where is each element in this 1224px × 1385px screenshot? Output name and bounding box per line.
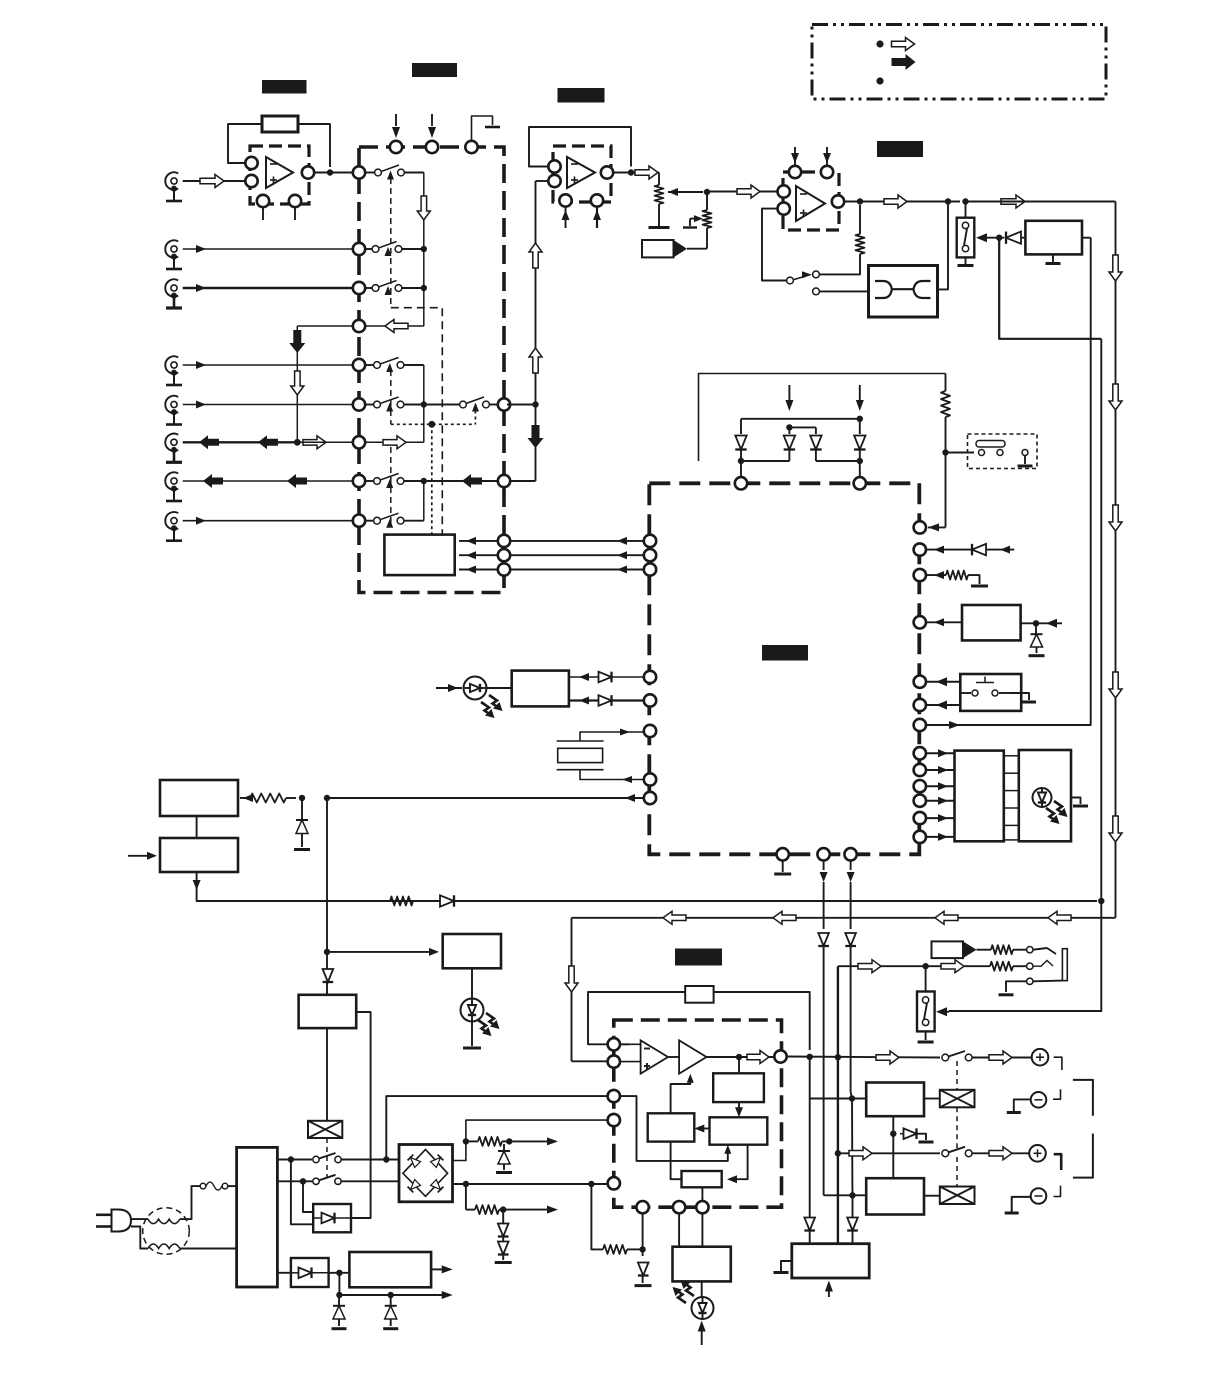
jd contact a — [1027, 947, 1056, 955]
filled down arrow rec feed 2 — [528, 425, 544, 448]
hollow arrow U3 out — [884, 195, 907, 208]
wire relay control (IC pin to K1) — [940, 238, 1091, 725]
wire DM1 to IC pin — [740, 461, 742, 477]
XA dashed down — [956, 1107, 958, 1150]
node protect/mute junction — [1098, 898, 1104, 904]
node relay A feed — [810, 1092, 867, 1102]
node relay B feed — [849, 1190, 866, 1199]
IC pin right y=786.2 — [914, 780, 926, 792]
node sec2 — [300, 1178, 306, 1184]
switch S3 contact b — [813, 271, 820, 278]
power switch aux contact — [1018, 450, 1033, 467]
muting amp M1 box — [642, 240, 687, 257]
regulator box B10 — [349, 1252, 431, 1287]
ac detect line — [193, 872, 1097, 901]
HP pin bottom 1 — [636, 1201, 648, 1213]
IC pin left y=731 — [644, 725, 656, 737]
node sec1 — [288, 1156, 294, 1162]
relay coil XA — [940, 1090, 975, 1108]
PS arm — [924, 1003, 927, 1020]
control wire 1 — [459, 537, 498, 545]
wire row481 to right pin — [427, 474, 498, 488]
op-amp U3 pin -in — [778, 185, 790, 197]
HP triangle 1 — [641, 1040, 668, 1073]
XB dashed — [956, 1157, 958, 1187]
IC relay net b — [820, 861, 828, 930]
HP C to D — [671, 1142, 682, 1180]
label bar (headphone amp) — [675, 949, 722, 966]
wire jack8 to selector — [183, 517, 353, 525]
IC pin right y=770 — [914, 764, 926, 776]
gang dashed line lower — [390, 447, 392, 524]
node spkB bus — [835, 1150, 841, 1156]
node source/rec split — [532, 401, 538, 407]
RCA jack jack 2 — [165, 240, 182, 269]
IC pin right y=681.7 — [914, 676, 926, 688]
resistor R7 — [466, 1137, 509, 1146]
XA dashed up — [956, 1061, 958, 1090]
hollow left arrow bus 1 — [1048, 911, 1071, 924]
node bus row481 — [421, 478, 427, 484]
hollow arrow main out — [1001, 195, 1025, 208]
wire push switch b — [926, 701, 960, 710]
hollow arrow jd 2 — [941, 960, 964, 973]
ground -B — [1005, 1197, 1031, 1213]
wire rec feed vertical — [297, 326, 353, 442]
remote data line 1 — [569, 672, 644, 683]
diode D11 — [845, 933, 856, 1092]
op-amp U1 pin -in — [245, 157, 257, 169]
node U2 out — [628, 169, 634, 175]
ground stub top pin 3 — [472, 116, 501, 141]
wire relayB-XB — [924, 1195, 940, 1197]
relay B box — [866, 1178, 924, 1214]
node U1 out — [327, 169, 333, 175]
M2 wire — [977, 949, 992, 951]
HP wire in2 — [620, 1061, 642, 1063]
HP feedback box B9 — [685, 986, 713, 1003]
hollow down arrow hp in — [565, 966, 578, 992]
HP pin -in — [608, 1038, 620, 1050]
AC plug — [96, 1210, 131, 1232]
wire VR1-VR2 — [706, 195, 708, 210]
IC pin left y=700.5 — [644, 694, 656, 706]
wiper VR2 — [683, 215, 703, 227]
switch S1a (row 172) — [365, 165, 424, 180]
wire diode rail 1 — [741, 418, 860, 420]
diode D2 stem — [788, 427, 790, 434]
gang dashed line mid — [390, 370, 392, 424]
wiper VR1 — [668, 188, 703, 196]
RCA jack jack 6 (rec out) — [165, 434, 182, 463]
wire diode rail 2 — [789, 426, 816, 428]
wire S3c to jack box — [820, 290, 869, 292]
wire to mute switch — [965, 202, 967, 218]
HP box B — [710, 1117, 768, 1144]
speaker line A — [787, 1057, 941, 1058]
wire hp power — [386, 1096, 607, 1159]
node low rail top — [336, 1270, 342, 1276]
jd contact gnd — [999, 978, 1063, 995]
hollow arrow jd 1 — [858, 960, 881, 973]
label bar (system control IC) — [762, 645, 808, 661]
standby lightning — [478, 1013, 500, 1036]
selector control box — [384, 535, 454, 576]
switch S6b — [942, 1147, 972, 1157]
legend signal-path filled arrow — [892, 54, 916, 70]
wire rec-out to jack6 (thick) — [183, 435, 294, 449]
IC pin left y=540.9 — [644, 535, 656, 547]
display driver wires — [926, 749, 955, 841]
headphone jack box J1 — [869, 266, 938, 318]
op-amp U2 triangle — [567, 157, 595, 188]
HP pin V+ — [608, 1114, 620, 1126]
node detect — [942, 449, 948, 455]
wire main out to bus — [968, 201, 1116, 203]
PS ground — [918, 1031, 934, 1042]
speaker bracket big — [1073, 1080, 1093, 1178]
hollow down arrow bus 1 — [1109, 255, 1122, 281]
IC pin right y=818.1 — [914, 812, 926, 824]
system control box B6 — [299, 995, 357, 1028]
IC pin right y=575.1 — [914, 569, 926, 581]
wire diode bottoms 2 — [816, 450, 860, 461]
hollow down arrow bus 2 — [1109, 384, 1122, 410]
diode D1 stem — [740, 419, 742, 434]
PS contact a — [922, 997, 928, 1003]
push switch symbol — [960, 677, 1010, 697]
diode DM3 — [810, 436, 821, 450]
wire jack4 to selector — [183, 361, 353, 369]
arrow into B5 — [128, 852, 157, 860]
HP mute wire — [620, 1096, 731, 1161]
node spkA bus — [835, 1054, 841, 1060]
wire HP out to power amp — [809, 1057, 811, 1218]
LED display symbol — [1033, 788, 1052, 807]
crystal wire bottom — [580, 770, 644, 783]
HP pin bottom 3 — [696, 1201, 708, 1213]
switch S3 contact a — [787, 277, 794, 284]
power detect box B4 — [160, 780, 238, 816]
diode D1 (relay) — [1006, 232, 1025, 244]
T1 winding top — [148, 1219, 180, 1224]
IC pin bottom c — [844, 848, 856, 860]
wire IC to selector ctl 3 — [510, 566, 644, 574]
node mute tap — [962, 198, 968, 204]
node U3 out — [857, 198, 863, 204]
display ground — [1071, 798, 1088, 807]
wire spkB term — [972, 1152, 1030, 1154]
IC pin right y=753.3 — [914, 747, 926, 759]
signal bus horizontal — [572, 917, 1116, 919]
arrow relay ctl out — [926, 721, 960, 729]
hp support box B8 — [673, 1247, 731, 1282]
node low rail a — [336, 1292, 342, 1298]
op-amp U3 pin top 1 — [789, 147, 801, 178]
legend box — [812, 25, 1106, 100]
crystal wire top — [580, 729, 644, 742]
power sw box B5 — [160, 816, 238, 872]
node rail D2 — [786, 424, 792, 430]
selector pin (right, y=404.5) — [498, 398, 510, 410]
standby net vertical — [326, 798, 328, 966]
wire rec junction to selector — [301, 441, 354, 443]
wire LED to B3 — [487, 687, 512, 689]
RCA jack jack 8 — [165, 512, 182, 541]
speaker bus — [837, 966, 839, 1243]
HP out wire — [707, 1056, 775, 1058]
B8 LED — [692, 1281, 714, 1319]
diode D10 — [818, 933, 852, 1195]
headphone amp dashed box — [614, 1020, 782, 1207]
switch S1e (row 404) — [365, 397, 424, 412]
switch S3 contact c — [813, 288, 820, 295]
wire U3 out — [844, 201, 960, 203]
IC pin right y=800.7 — [914, 795, 926, 807]
switch S1d (row 365) — [365, 358, 424, 373]
HP pin1 wire — [642, 1213, 644, 1249]
switch S1c (row 288) — [365, 281, 424, 296]
node bus row249 — [421, 246, 427, 252]
switch S3 arm — [794, 271, 812, 279]
switch S5a — [313, 1153, 399, 1163]
switch S1g (row 520) — [365, 513, 424, 528]
diode DM2 — [784, 436, 795, 450]
selector top pin 1 — [390, 141, 402, 153]
label bar (input selector) — [412, 63, 457, 77]
potentiometer VR2 (loudness) — [703, 210, 712, 248]
resistor R9 — [990, 962, 1026, 971]
hollow arrow spkB 2 — [989, 1147, 1012, 1160]
wire U2 feedback — [529, 127, 631, 167]
diode D4 ctl arrow — [856, 385, 864, 411]
wire sec2 to D3box — [303, 1181, 313, 1212]
selector pin (left, y=288) — [353, 282, 365, 294]
zener ZD4 — [498, 1212, 509, 1242]
diode box D8 — [313, 1204, 351, 1232]
selector pin (left, y=442.3) — [353, 436, 365, 448]
hollow arrow to U3 — [737, 185, 760, 198]
op-amp U2 pin bias 1 — [559, 194, 571, 228]
hollow up arrow source bus 2 — [529, 348, 542, 373]
zener ZD2 — [294, 798, 310, 850]
wire rec-out to jack7 — [183, 474, 353, 488]
node bridge - a — [463, 1181, 469, 1187]
op-amp U2 pin +in — [548, 175, 560, 187]
remote box B3 — [512, 671, 569, 707]
hollow arrow spkA 2 — [989, 1051, 1012, 1064]
wire rec switch to pin — [507, 404, 536, 406]
wire jack2 to selector — [183, 245, 353, 253]
wire jack3 to selector (thick) — [183, 284, 353, 292]
wire selector bus lower — [423, 481, 425, 521]
node relay drive — [996, 235, 1002, 241]
wire selector bus mid — [365, 365, 424, 442]
node bridge - b — [588, 1181, 594, 1187]
wire B6 right — [351, 1012, 371, 1218]
selector pin (right, y=569.5) — [498, 563, 510, 575]
remote data line 2 — [569, 695, 644, 706]
hollow down arrow selector bus — [417, 196, 430, 220]
hollow right arrow row 442 — [383, 436, 406, 449]
node wiper junction — [704, 189, 710, 195]
diode D4 stem — [859, 419, 861, 434]
push switch box P2 — [960, 674, 1021, 711]
wire diode loop top — [699, 374, 946, 462]
S4 contact a — [962, 222, 968, 228]
selector pin (right, y=555.2) — [498, 549, 510, 561]
wire -B branch — [466, 1184, 503, 1214]
wire sec1 to D3box — [291, 1160, 313, 1225]
legend bullet 2 — [876, 77, 883, 84]
power transformer T1 circle — [143, 1208, 190, 1255]
relay coil XB — [940, 1187, 975, 1205]
IC relay net c — [847, 861, 855, 930]
RCA jack jack 5 — [165, 396, 182, 425]
HP pin V- — [608, 1177, 620, 1189]
node reset r — [299, 795, 305, 801]
diode D7 — [323, 966, 334, 995]
wire wiper to U3 — [707, 191, 778, 193]
IC pin left y=779.5 — [644, 773, 656, 785]
wire jack5 to selector — [183, 401, 353, 409]
RCA jack PHONO — [165, 172, 182, 201]
arrow into S4 — [976, 233, 1004, 242]
node sec1 b — [383, 1156, 389, 1162]
wire spkA term — [972, 1057, 1032, 1059]
arrow detect to IC — [928, 521, 946, 531]
op-amp U2 pin -in — [548, 160, 560, 172]
T1 winding bottom — [148, 1244, 180, 1249]
power amp gnd — [774, 1261, 792, 1273]
potentiometer VR1 (volume) — [655, 173, 664, 227]
switch S5b — [313, 1175, 399, 1185]
HP pin2 wire — [678, 1213, 680, 1246]
wire K1 to control line — [1082, 237, 1091, 239]
HP pin3 wire — [701, 1213, 703, 1246]
resistor R2 (U3 feedback) — [856, 205, 865, 254]
wire plug to T1 top — [131, 1218, 148, 1220]
hollow left arrow bus 2 — [935, 911, 958, 924]
op-amp U2 pin out — [601, 166, 613, 178]
RCA jack jack 3 — [165, 279, 182, 308]
wire reset line — [327, 794, 644, 802]
diode D15 — [804, 1218, 815, 1244]
label bar (tone amp) — [877, 141, 923, 157]
relay X2 dashed — [326, 1138, 328, 1177]
node B2 out — [1033, 620, 1039, 626]
wire push switch a — [926, 677, 960, 686]
diode D2 ctl arrow — [785, 385, 793, 411]
IC pin left y=569.5 — [644, 563, 656, 575]
op-amp U3 triangle — [796, 186, 825, 221]
hollow up arrow source bus 1 — [529, 243, 542, 268]
RCA jack jack 4 — [165, 356, 182, 385]
label bar (phono eq amp) — [262, 80, 307, 94]
terminal +B — [1029, 1145, 1046, 1162]
IC pin right y=836.9 — [914, 831, 926, 843]
wire right pin481 from bus — [510, 480, 536, 482]
IC pin right y=705 — [914, 699, 926, 711]
zener ZD3 — [496, 1144, 512, 1173]
resistor R1 (U1 feedback) — [262, 116, 298, 132]
wire T1 to fuse — [180, 1186, 200, 1219]
bracket +A — [1054, 1057, 1062, 1070]
hollow left arrow bus 4 — [663, 911, 686, 924]
wire protect net — [949, 238, 1101, 1011]
op-amp U2 dashed box — [553, 146, 611, 202]
IC pin right y=527.4 — [914, 521, 926, 533]
mute switch S4 box — [957, 218, 975, 258]
RCA jack jack 7 (rec out) — [165, 472, 182, 501]
HP box C — [648, 1113, 695, 1141]
node reset j — [324, 795, 330, 801]
wire D14 to B10 — [329, 1272, 350, 1274]
diode D3 stem — [815, 427, 817, 434]
headphone jack sleeve — [1062, 949, 1067, 981]
wire IC to selector ctl 2 — [510, 551, 644, 559]
S4 arm — [964, 229, 967, 246]
selector top pin 2 — [426, 141, 438, 153]
PT secondary 3 — [277, 1272, 291, 1274]
push switch ground — [1010, 693, 1036, 702]
terminal +A — [1032, 1049, 1049, 1066]
wire standby to B7 — [327, 948, 439, 956]
diode D12 — [847, 1195, 858, 1243]
bridge - out — [453, 1183, 614, 1185]
diode D5 net — [926, 544, 1014, 555]
zener ZD6 — [332, 1295, 347, 1329]
node hp neg — [639, 1246, 645, 1252]
terminal -A — [1031, 1092, 1047, 1108]
selector top pin 3 — [465, 141, 477, 153]
muting box M2 — [932, 941, 977, 958]
op-amp U1 pin supply 2 — [289, 195, 301, 220]
wire U2 out — [613, 172, 659, 174]
mode box B2 — [962, 605, 1021, 640]
HP feedback wire — [588, 992, 685, 1044]
node bus row404 — [421, 401, 427, 407]
op-amp U2 pin bias 2 — [591, 194, 603, 228]
node control dotted — [428, 421, 435, 428]
op-amp U3 pin top 2 — [821, 147, 833, 178]
op-amp U1 dashed box — [250, 146, 309, 204]
standby LED ground — [463, 1022, 481, 1049]
node rec junction — [294, 439, 301, 446]
HP box A — [713, 1057, 764, 1102]
wire hp neg feed — [591, 1184, 603, 1249]
bridge + out — [453, 1120, 608, 1160]
control dotted vertical — [431, 424, 433, 534]
hollow arrow U2 out — [635, 166, 658, 179]
op-amp U3 pin out — [832, 195, 844, 207]
node main out — [945, 198, 951, 204]
wire relay A to B — [851, 1098, 853, 1190]
wire low rail — [339, 1273, 452, 1299]
switch S1f (row 481) — [365, 474, 424, 489]
HP wire in1 — [620, 1043, 642, 1045]
resistor R6 — [390, 897, 413, 906]
control dotted line — [391, 405, 476, 425]
wire B2 out — [1021, 622, 1062, 624]
hollow left arrow bus 3 — [773, 911, 796, 924]
wire DM4 to IC pin — [859, 461, 861, 477]
op-amp U1 pin +in — [245, 175, 257, 187]
arrow +B — [509, 1137, 558, 1145]
power amp arrow — [825, 1281, 833, 1298]
resistor R4 net — [926, 571, 988, 586]
wire U1 out — [314, 172, 353, 174]
